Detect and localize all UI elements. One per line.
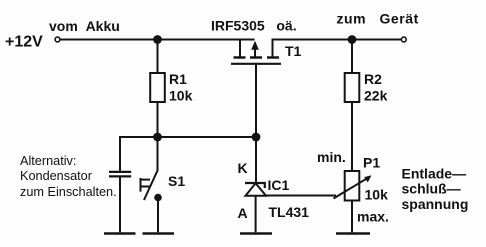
transistor T1 bulk contact bar xyxy=(250,56,262,59)
transistor T1 gate plate xyxy=(231,63,281,65)
svg-text:T1: T1 xyxy=(285,43,302,59)
wire R1 top lead xyxy=(157,40,159,74)
ground switch branch xyxy=(143,232,175,235)
svg-text:10k: 10k xyxy=(365,187,389,203)
switch S1 bottom contact dot xyxy=(154,194,162,202)
potentiometer P1 body xyxy=(345,171,360,201)
IC1 cathode bar with tick xyxy=(245,183,265,188)
svg-text:zum Einschalten.: zum Einschalten. xyxy=(20,185,117,199)
node +12V input terminal xyxy=(55,37,60,42)
node output terminal zum Geraet xyxy=(401,37,406,42)
svg-text:schluß—: schluß— xyxy=(402,181,461,197)
svg-text:K: K xyxy=(238,160,248,176)
wire switch top lead xyxy=(157,137,159,171)
svg-text:S1: S1 xyxy=(168,173,185,189)
svg-text:spannung: spannung xyxy=(402,196,469,212)
svg-text:max.: max. xyxy=(357,209,389,225)
switch S1 arm xyxy=(144,171,158,201)
wire R2 to P1 xyxy=(351,102,353,171)
wire capacitor bottom lead xyxy=(119,178,121,233)
transistor T1 drain lead xyxy=(272,39,274,58)
node junction dot left xyxy=(153,133,162,142)
ground capacitor branch xyxy=(104,232,136,235)
svg-text:IRF5305 oä.: IRF5305 oä. xyxy=(211,18,297,34)
IC1 TL431 triangle xyxy=(246,183,267,196)
wire capacitor top lead xyxy=(119,136,121,171)
svg-text:R1: R1 xyxy=(169,71,187,87)
svg-text:22k: 22k xyxy=(364,88,388,104)
switch S1 actuator bracket xyxy=(140,178,142,192)
svg-text:A: A xyxy=(238,205,248,221)
resistor R2 body xyxy=(345,73,360,102)
ground P1 branch xyxy=(336,232,370,235)
potentiometer P1 wiper arrow xyxy=(334,178,369,199)
transistor T1 drain contact bar xyxy=(267,56,279,59)
svg-text:R2: R2 xyxy=(364,71,382,87)
wire gate lead down to node xyxy=(255,64,257,137)
transistor T1 source lead xyxy=(239,39,241,57)
svg-text:zum Gerät: zum Gerät xyxy=(337,11,419,27)
node junction dot gate column xyxy=(252,133,261,142)
wire switch bottom lead xyxy=(157,198,159,233)
svg-text:Kondensator: Kondensator xyxy=(20,169,93,183)
svg-text:IC1: IC1 xyxy=(268,177,290,193)
svg-text:10k: 10k xyxy=(169,88,193,104)
svg-text:TL431: TL431 xyxy=(269,204,310,220)
wire IC1 anode lead xyxy=(255,196,257,233)
wire R1 bottom lead xyxy=(157,102,159,137)
svg-text:min.: min. xyxy=(317,149,346,165)
wire R2 top lead xyxy=(351,40,353,74)
svg-text:Entlade—: Entlade— xyxy=(402,166,467,182)
svg-text:Alternativ:: Alternativ: xyxy=(20,154,76,168)
svg-text:vom Akku: vom Akku xyxy=(49,18,120,34)
transistor T1 source contact bar xyxy=(234,56,246,59)
wire top rail left (battery to MOSFET source/bulk) xyxy=(61,39,255,41)
wire P1 bottom lead xyxy=(351,201,353,233)
ground IC1 branch xyxy=(240,232,272,235)
svg-text:+12V: +12V xyxy=(5,34,43,51)
wire top rail right (MOSFET drain to output) xyxy=(273,39,402,41)
transistor T1 bulk lead with up arrow xyxy=(254,48,256,58)
wire IC1 cathode lead xyxy=(255,137,257,182)
wire IC1 reference to P1 wiper xyxy=(266,195,336,197)
node junction dot rail at R1 xyxy=(153,35,162,44)
resistor R1 body xyxy=(150,73,165,102)
node junction dot rail at R2 xyxy=(348,35,357,44)
capacitor plates xyxy=(109,171,131,173)
svg-text:P1: P1 xyxy=(363,155,380,171)
wire horizontal between junctions and to capacitor xyxy=(120,136,256,138)
